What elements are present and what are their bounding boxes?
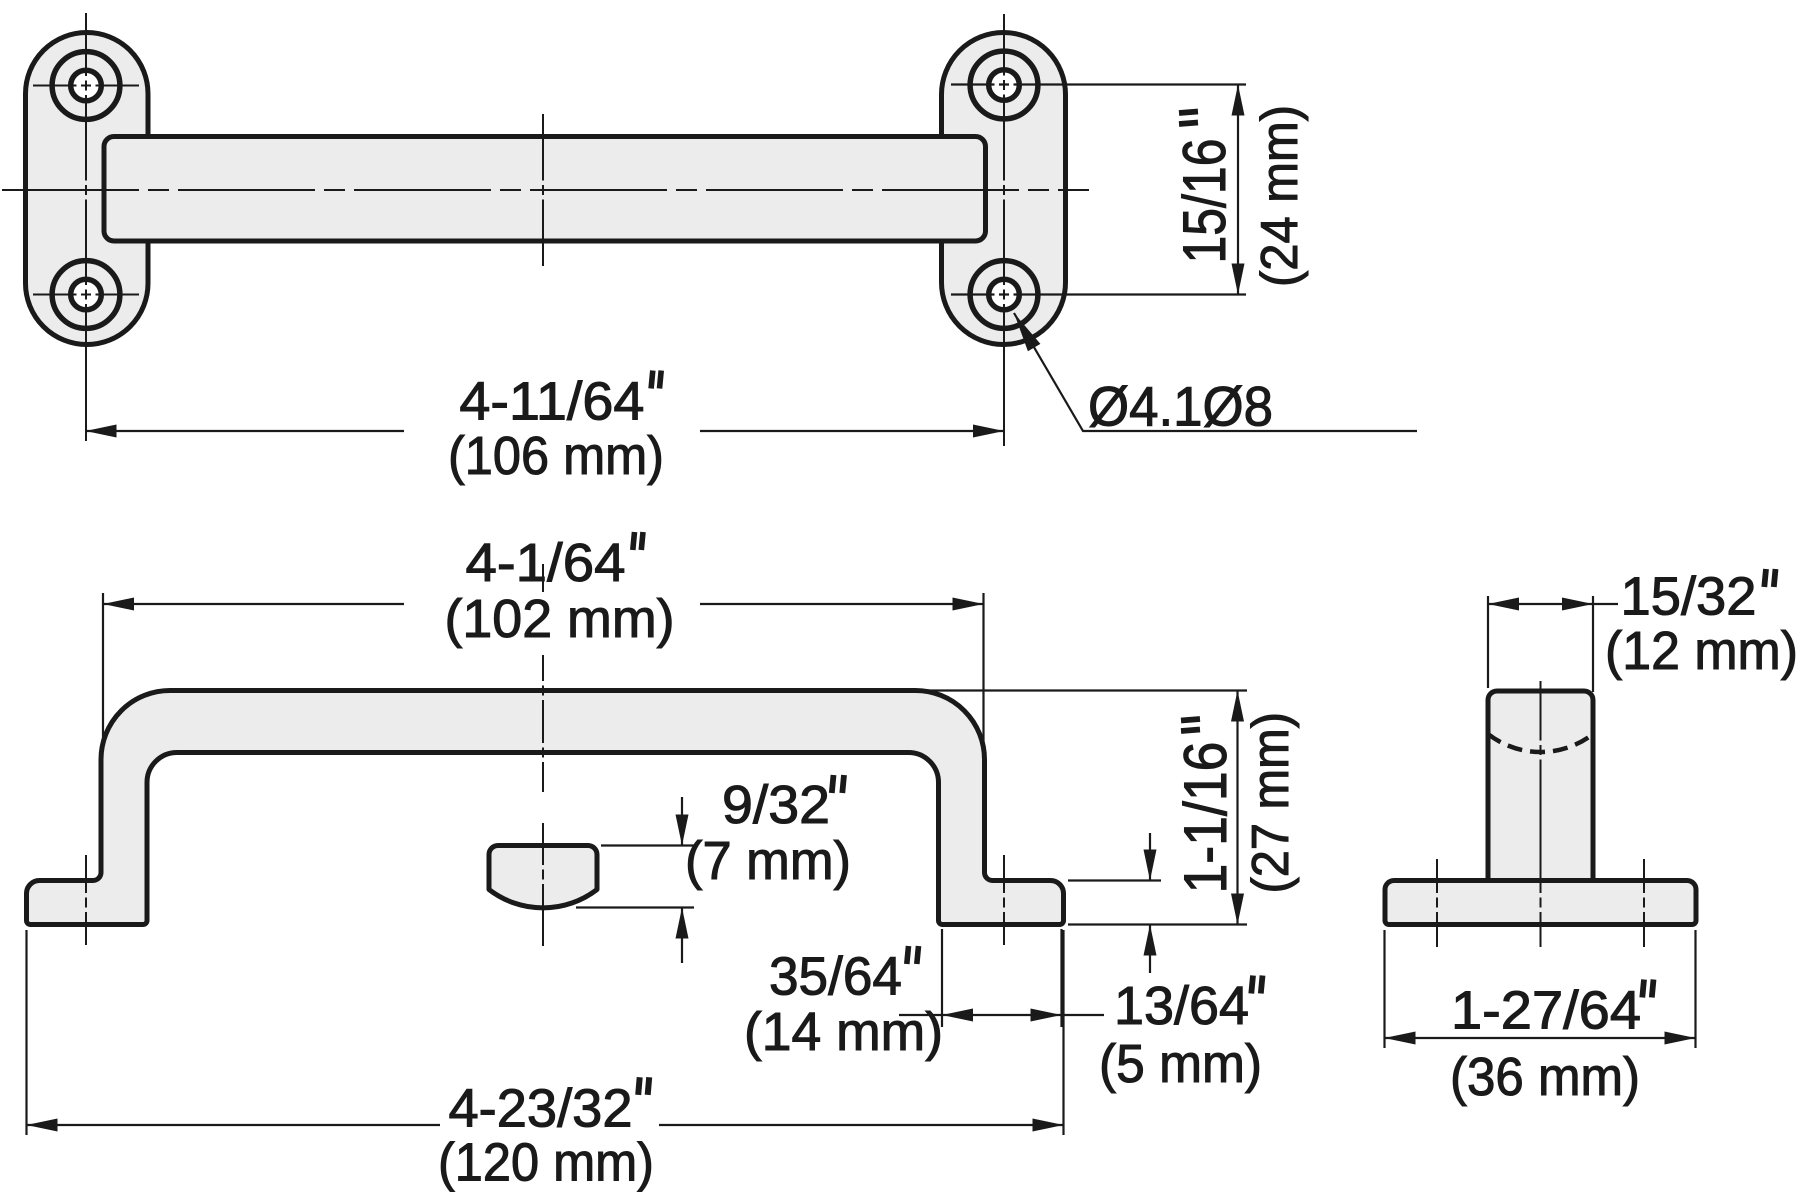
svg-text:(7 mm): (7 mm)	[685, 831, 851, 891]
side view flange	[1385, 881, 1696, 925]
left foot centerline	[85, 855, 87, 945]
svg-text:35/64: 35/64	[769, 947, 902, 1007]
svg-text:(106 mm): (106 mm)	[448, 426, 664, 486]
extension line foot top	[1068, 879, 1161, 881]
extension line from top-right hole	[951, 83, 1246, 85]
side view right hole centerline	[1643, 859, 1645, 947]
tab centerline	[542, 823, 544, 946]
handle top view: right mounting plate	[942, 33, 1066, 345]
svg-text:(5 mm): (5 mm)	[1099, 1034, 1262, 1094]
dimension line 1-27/64in 36mm	[1385, 1037, 1696, 1039]
dimension line 35/64in 14mm	[899, 1014, 1104, 1016]
top view bar middle tick centerline	[542, 114, 544, 266]
extension line left foot outer	[25, 930, 27, 1135]
svg-text:(102 mm): (102 mm)	[445, 589, 675, 649]
svg-text:1-27/64: 1-27/64	[1451, 981, 1641, 1041]
svg-text:(36 mm): (36 mm)	[1450, 1047, 1640, 1107]
extension line tab bottom	[576, 906, 694, 908]
handle front view silhouette	[27, 691, 1064, 925]
dimension line 4-23/32in 120mm	[27, 1124, 1064, 1126]
screw hole top-left: bore	[71, 70, 102, 101]
leader line to hole	[1014, 313, 1417, 431]
extension line right foot left	[941, 929, 943, 1027]
extension line tab top	[601, 844, 696, 846]
side view stem (grip cross-section)	[1488, 691, 1593, 882]
dimension line 4-1/64in 102mm	[103, 603, 984, 605]
svg-text:(12 mm): (12 mm)	[1605, 621, 1798, 681]
svg-text:4-23/32: 4-23/32	[449, 1079, 633, 1139]
top view right plate vertical centerline	[1003, 14, 1005, 446]
svg-text:(27 mm): (27 mm)	[1242, 712, 1300, 894]
svg-text:4-11/64: 4-11/64	[459, 372, 644, 432]
svg-text:(120 mm): (120 mm)	[438, 1133, 654, 1193]
extension line from bottom-right hole	[951, 293, 1246, 295]
crosshair bottom-left hole	[33, 294, 139, 296]
screw hole bottom-left: bore	[71, 279, 102, 310]
handle top view: grip bar	[104, 137, 986, 242]
handle top view: left mounting plate	[26, 33, 149, 345]
extension line stem left	[1487, 596, 1489, 688]
dimension line 4-11/64in 106mm	[86, 430, 1005, 432]
top view horizontal centerline	[2, 189, 1089, 191]
extension line right leg outer	[982, 593, 984, 745]
extension line left leg outer	[102, 593, 104, 742]
extension line handle top	[920, 689, 1247, 691]
front view center vertical centerline	[542, 564, 544, 592]
hidden line: grip underside arc	[1488, 734, 1593, 752]
dimension line 9/32in 7mm	[681, 797, 683, 963]
screw hole bottom-right: counterbore	[970, 261, 1038, 329]
dimension line 15/32in 12mm	[1488, 603, 1618, 605]
mounting boss tab (section)	[489, 846, 597, 908]
screw hole top-right: bore	[989, 70, 1020, 101]
screw hole bottom-left: counterbore	[52, 261, 120, 329]
extension line right foot right	[1060, 929, 1062, 1027]
screw hole top-left: counterbore	[52, 52, 120, 120]
svg-text:(14 mm): (14 mm)	[744, 1002, 943, 1062]
screw hole top-right: counterbore	[970, 51, 1038, 119]
svg-text:15/16: 15/16	[1171, 139, 1238, 264]
dimension line 15/16in 24mm	[1237, 85, 1239, 295]
svg-text:9/32: 9/32	[722, 775, 830, 835]
screw hole bottom-right: bore	[989, 279, 1020, 310]
extension line right foot outer	[1062, 930, 1064, 1135]
dimension line 13/64in 5mm	[1149, 833, 1151, 973]
extension line stem right	[1592, 596, 1594, 692]
svg-text:4-1/64: 4-1/64	[466, 533, 626, 593]
extension line foot bottom shared	[1068, 923, 1247, 925]
side view left hole centerline	[1436, 859, 1438, 947]
extension line flange left	[1383, 930, 1385, 1048]
dimension line 1-1/16in 27mm	[1236, 691, 1238, 925]
svg-text:13/64: 13/64	[1114, 976, 1249, 1036]
svg-text:Ø4.1Ø8: Ø4.1Ø8	[1088, 375, 1273, 438]
right foot centerline	[1003, 855, 1005, 945]
crosshair top-left hole	[33, 85, 139, 87]
top view left plate vertical centerline	[85, 13, 87, 441]
svg-text:(24 mm): (24 mm)	[1251, 105, 1309, 287]
svg-text:1-1/16: 1-1/16	[1172, 742, 1239, 894]
svg-text:15/32: 15/32	[1621, 567, 1757, 627]
side view stem centerline	[1540, 681, 1542, 947]
extension line flange right	[1694, 930, 1696, 1048]
